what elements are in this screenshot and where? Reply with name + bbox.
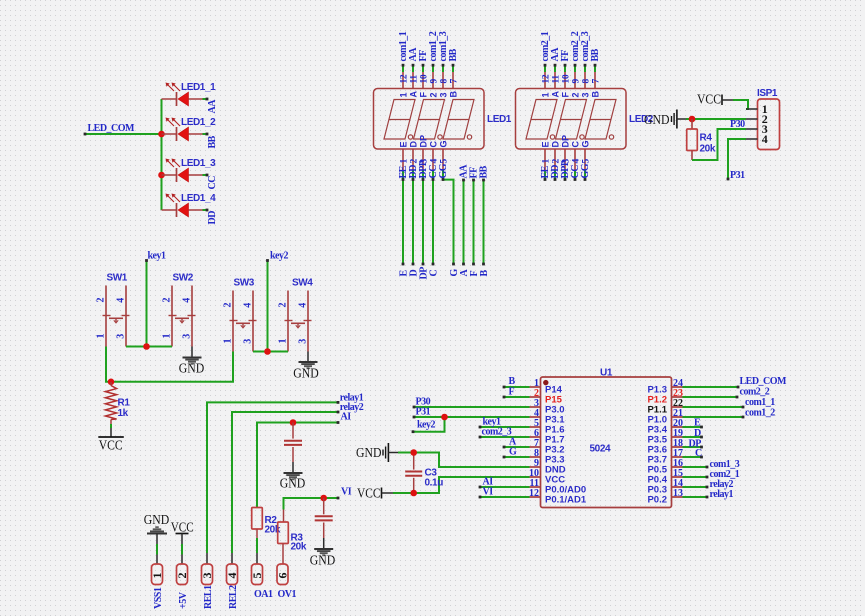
svg-text:2: 2	[162, 298, 173, 303]
node REL2	[228, 585, 239, 609]
connector single-pin headers 1-6	[150, 564, 289, 585]
switch SW3	[223, 278, 257, 352]
node +5V	[178, 591, 189, 609]
svg-text:E: E	[398, 141, 408, 147]
svg-text:11: 11	[552, 75, 562, 84]
svg-text:4: 4	[243, 303, 254, 308]
svg-text:9: 9	[430, 79, 440, 84]
svg-text:1: 1	[542, 159, 552, 164]
svg-text:key2: key2	[270, 251, 289, 262]
svg-text:5: 5	[440, 159, 450, 164]
svg-text:com1_2: com1_2	[745, 408, 775, 419]
svg-text:SW4: SW4	[292, 278, 313, 289]
wire net com2_1 from U1 right	[683, 469, 740, 480]
switch SW2	[162, 273, 196, 347]
svg-text:LED1_4: LED1_4	[181, 193, 216, 204]
svg-text:8: 8	[440, 79, 450, 84]
svg-text:4: 4	[762, 132, 768, 146]
svg-text:GND: GND	[310, 553, 336, 568]
svg-text:GND: GND	[356, 445, 382, 460]
svg-text:DD: DD	[207, 211, 218, 225]
svg-text:VCC: VCC	[171, 520, 194, 535]
svg-text:VCC: VCC	[99, 438, 123, 453]
wire +5V lead	[181, 544, 183, 564]
svg-text:9: 9	[572, 79, 582, 84]
svg-text:LED1_2: LED1_2	[181, 117, 216, 128]
LED LED1_2	[162, 117, 217, 141]
wire net DP from U1 right	[683, 439, 703, 450]
svg-text:F: F	[418, 92, 428, 98]
svg-text:4: 4	[116, 298, 127, 303]
svg-text:ISP1: ISP1	[757, 88, 778, 99]
wire key1	[145, 251, 166, 347]
svg-text:4: 4	[430, 159, 440, 164]
svg-text:GND: GND	[293, 366, 319, 381]
svg-text:B: B	[479, 270, 490, 277]
svg-text:AA: AA	[207, 99, 218, 114]
svg-text:2: 2	[570, 92, 580, 97]
svg-text:1: 1	[398, 92, 408, 97]
wire REL2 lead	[231, 553, 233, 564]
svg-text:8: 8	[582, 79, 592, 84]
svg-text:BB: BB	[207, 135, 218, 148]
svg-text:1: 1	[150, 573, 164, 579]
svg-text:11: 11	[410, 75, 420, 84]
svg-text:LED_COM: LED_COM	[88, 123, 136, 134]
wire net relay2 from U1 right	[683, 479, 734, 490]
svg-text:R4: R4	[700, 133, 713, 144]
junction C3 bottom	[410, 490, 417, 497]
svg-text:G: G	[580, 140, 590, 147]
wire net C from U1 right	[683, 448, 703, 459]
svg-text:GG: GG	[438, 163, 449, 178]
svg-text:VCC: VCC	[697, 92, 721, 107]
svg-text:LED1_3: LED1_3	[181, 158, 216, 169]
capacitor C2 (VI filter)	[315, 498, 333, 538]
svg-text:B: B	[448, 91, 458, 98]
wire net relay2	[232, 402, 364, 553]
LED LED1_1	[162, 82, 217, 106]
wire net A to U1.7	[503, 437, 530, 449]
svg-text:SW3: SW3	[234, 278, 255, 289]
node VSS1	[153, 587, 164, 609]
svg-text:1: 1	[400, 159, 410, 164]
svg-text:3: 3	[298, 339, 309, 344]
wire stubs AA FF BB below LED1	[462, 179, 485, 266]
svg-text:2: 2	[175, 573, 189, 579]
svg-text:DP: DP	[418, 135, 428, 148]
wire net com1_2 from U1 right	[683, 408, 776, 419]
wire net com1_3 from U1 right	[683, 459, 740, 470]
svg-text:com1_1: com1_1	[745, 397, 775, 408]
svg-text:GG: GG	[580, 163, 591, 178]
power VCC above connector pin2	[171, 520, 194, 545]
ground GND above connector pin1	[144, 512, 170, 544]
LED LED1_3	[162, 158, 217, 182]
switch SW4	[278, 278, 314, 352]
svg-text:LED1: LED1	[487, 114, 512, 125]
svg-text:OV1: OV1	[278, 589, 297, 600]
node CC	[207, 176, 218, 190]
svg-text:1: 1	[278, 339, 289, 344]
7-segment display LED2	[516, 31, 654, 178]
U1 pins and pin numbers	[529, 378, 683, 506]
power VCC port (top)	[697, 92, 733, 107]
svg-text:B: B	[590, 91, 600, 98]
svg-text:E: E	[694, 418, 701, 429]
wire net AI to U1.11	[479, 477, 530, 489]
capacitor C1 (AI filter)	[284, 423, 302, 463]
ground GND under C2	[310, 538, 336, 568]
resistor R1 1k	[105, 382, 130, 428]
svg-text:BB: BB	[479, 165, 490, 178]
svg-text:C: C	[428, 141, 438, 148]
svg-text:VI: VI	[341, 487, 352, 498]
wire net relay1 from U1 right	[683, 489, 734, 500]
svg-text:P31: P31	[730, 170, 745, 181]
wire REL1 lead	[206, 553, 208, 564]
wire SW1.3 to SW2.1	[126, 343, 172, 350]
svg-text:BB: BB	[590, 48, 601, 61]
switch SW1	[96, 273, 130, 347]
svg-text:key1: key1	[148, 251, 167, 262]
ground GND under C1	[280, 462, 306, 491]
svg-text:SW2: SW2	[173, 273, 194, 284]
svg-text:3: 3	[200, 573, 214, 579]
svg-text:DP: DP	[560, 135, 570, 148]
svg-text:key2: key2	[417, 420, 436, 431]
svg-text:1: 1	[96, 334, 107, 339]
svg-text:F: F	[509, 387, 515, 398]
svg-text:D: D	[694, 428, 701, 439]
svg-text:0.1u: 0.1u	[425, 478, 444, 489]
svg-text:GND: GND	[179, 361, 205, 376]
svg-text:20k: 20k	[700, 144, 716, 155]
svg-text:7: 7	[592, 79, 602, 84]
junction R4 top	[689, 116, 696, 123]
svg-text:C: C	[570, 141, 580, 148]
svg-text:1: 1	[540, 92, 550, 97]
svg-text:1k: 1k	[118, 408, 129, 419]
wire net com2_2 from U1 right	[683, 387, 770, 399]
wire LED common vertical bus	[161, 99, 163, 210]
svg-text:LED_COM: LED_COM	[740, 376, 788, 387]
wire SW1.1 / SW3.1 to R1	[106, 347, 233, 386]
svg-text:R1: R1	[118, 398, 131, 409]
wire net AI	[257, 412, 351, 508]
svg-text:U1: U1	[600, 368, 613, 379]
svg-text:2: 2	[278, 303, 289, 308]
IC U1 5024	[541, 368, 672, 508]
svg-text:20k: 20k	[291, 542, 307, 553]
power VCC port (bottom)	[357, 486, 393, 501]
node DD	[207, 211, 218, 225]
svg-text:D: D	[550, 141, 560, 148]
power VCC under R1	[98, 428, 124, 453]
wire GND to U1 pin9 DND	[398, 453, 530, 468]
svg-text:1: 1	[223, 339, 234, 344]
wire net E from U1 right	[683, 418, 703, 429]
wire GND to ISP pin2	[686, 118, 746, 120]
svg-text:2: 2	[223, 303, 234, 308]
svg-text:4: 4	[182, 298, 193, 303]
svg-text:12: 12	[400, 74, 410, 83]
svg-text:F: F	[560, 92, 570, 98]
wire net P30 to U1.3	[413, 397, 530, 409]
svg-text:5024: 5024	[590, 444, 611, 455]
svg-text:VSS1: VSS1	[153, 587, 164, 609]
svg-text:3: 3	[580, 92, 590, 97]
node labels E D DP C G A F B	[399, 267, 491, 280]
svg-text:CC: CC	[207, 176, 218, 190]
svg-text:13: 13	[673, 488, 683, 499]
wire net com1_1 from U1 right	[683, 397, 776, 408]
svg-text:C: C	[695, 448, 702, 459]
ground GND port (near C3)	[356, 443, 398, 462]
svg-text:4: 4	[572, 159, 582, 164]
svg-text:G: G	[438, 140, 448, 147]
wire ISP pin4 to P31 stub	[727, 139, 746, 181]
node OA1	[254, 589, 273, 600]
resistor R2 20k	[252, 508, 281, 554]
ground GND under SW4	[293, 352, 319, 381]
wire net com2_3 to U1.6	[479, 427, 530, 439]
7-segment display LED1	[374, 31, 512, 178]
svg-text:E: E	[540, 141, 550, 147]
wire net B to U1.1	[503, 376, 530, 388]
svg-text:VCC: VCC	[357, 486, 381, 501]
svg-text:3: 3	[243, 339, 254, 344]
wire net D from U1 right	[683, 428, 703, 439]
svg-text:REL2: REL2	[228, 585, 239, 609]
svg-text:G: G	[509, 447, 517, 458]
wire net key1 to U1.5	[479, 417, 530, 429]
wire R4 bottom to ISP pin3 (net P30)	[692, 119, 746, 160]
svg-text:1: 1	[162, 334, 173, 339]
svg-text:10: 10	[562, 74, 572, 83]
svg-text:REL1: REL1	[203, 585, 214, 609]
svg-text:5: 5	[250, 573, 264, 579]
svg-text:3: 3	[182, 334, 193, 339]
svg-text:OA1: OA1	[254, 589, 273, 600]
svg-text:com2_2: com2_2	[740, 387, 770, 398]
svg-text:4: 4	[225, 573, 239, 579]
junction C3 top	[410, 449, 417, 456]
junction LED_COM	[158, 131, 165, 179]
svg-text:P31: P31	[416, 407, 431, 418]
capacitor C3 0.1u	[405, 453, 443, 494]
svg-text:GND: GND	[144, 512, 170, 527]
svg-text:2: 2	[96, 298, 107, 303]
node REL1	[203, 585, 214, 609]
svg-text:SW1: SW1	[107, 273, 128, 284]
svg-text:2: 2	[428, 92, 438, 97]
wire net F to U1.2	[503, 387, 530, 399]
svg-text:6: 6	[275, 573, 289, 579]
svg-text:3: 3	[116, 334, 127, 339]
svg-text:GND: GND	[644, 112, 670, 127]
wire VCC to ISP pin1	[733, 100, 748, 109]
svg-text:LED1_1: LED1_1	[181, 82, 216, 93]
svg-text:B: B	[509, 376, 516, 387]
ground GND under SW2	[179, 347, 205, 376]
svg-text:12: 12	[529, 488, 539, 499]
svg-text:A: A	[550, 91, 560, 98]
svg-text:com2_3: com2_3	[482, 427, 512, 438]
wire segments E D DP C G from LED1 bottom pins	[402, 170, 455, 265]
node labels AA FF BB	[459, 164, 490, 179]
svg-text:P30: P30	[730, 119, 745, 130]
node OV1	[278, 589, 297, 600]
LED LED1_4	[162, 193, 217, 217]
node AA	[207, 99, 218, 114]
wire OA1 lead	[256, 553, 258, 564]
svg-text:P0.2: P0.2	[647, 495, 667, 506]
wire net LED_COM (left)	[84, 123, 162, 135]
svg-text:GND: GND	[280, 476, 306, 491]
svg-text:10: 10	[420, 74, 430, 83]
resistor R3 20k	[278, 510, 307, 565]
connector ISP1	[746, 88, 780, 150]
svg-text:7: 7	[450, 79, 460, 84]
svg-text:relay1: relay1	[710, 489, 734, 500]
node BB	[207, 135, 218, 148]
resistor R4 20k	[687, 119, 716, 160]
wire net P31 / key2 to U1.4	[412, 407, 530, 434]
wire SW3.3 to SW4.1	[253, 348, 288, 355]
svg-text:4: 4	[298, 303, 309, 308]
svg-text:AI: AI	[341, 412, 352, 423]
wire net relay1	[207, 393, 364, 554]
svg-text:D: D	[408, 141, 418, 148]
wire VCC to U1 pin10	[393, 477, 530, 493]
wire key2	[266, 251, 288, 352]
svg-text:P0.1/AD1: P0.1/AD1	[545, 495, 587, 506]
svg-text:A: A	[408, 91, 418, 98]
svg-text:BB: BB	[448, 48, 459, 61]
svg-text:12: 12	[542, 74, 552, 83]
svg-text:VI: VI	[483, 487, 494, 498]
wire net G to U1.8	[503, 447, 530, 459]
ground GND port (near LED2)	[644, 110, 687, 129]
wire nubs below LED2	[544, 170, 587, 181]
wire net VI	[284, 487, 352, 510]
wire net VI to U1.12	[479, 487, 530, 499]
svg-text:3: 3	[438, 92, 448, 97]
svg-text:+5V: +5V	[178, 591, 189, 609]
wire net LED_COM from U1 right	[683, 376, 788, 388]
svg-text:C: C	[429, 270, 440, 277]
svg-text:5: 5	[582, 159, 592, 164]
wire VSS1 lead	[156, 544, 158, 564]
